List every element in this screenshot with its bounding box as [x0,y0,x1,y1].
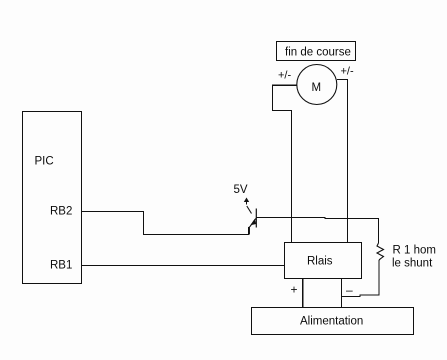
wire 5V to transistor base [247,206,252,214]
wire RB2 to transistor emitter [82,212,249,235]
resistor R1 shunt [377,243,384,261]
svg-text:Rlais: Rlais [307,256,333,268]
wire RB1 to relay [82,265,284,267]
svg-text:fin de course: fin de course [285,47,351,59]
svg-text:RB2: RB2 [50,206,72,218]
svg-text:+/-: +/- [341,66,354,78]
svg-text:RB1: RB1 [50,260,72,272]
block PIC [23,112,82,284]
svg-text:+/-: +/- [278,70,291,82]
svg-text:+: + [291,283,298,297]
svg-text:5V: 5V [234,184,248,196]
relay Rlais [285,243,362,279]
svg-text:le shunt: le shunt [392,258,433,270]
motor M1 [297,65,337,105]
svg-text:Alimentation: Alimentation [300,316,363,328]
wire transistor collector to shunt resistor [256,218,378,244]
wire motor right to relay [337,80,348,243]
svg-text:PIC: PIC [35,156,54,168]
wire shunt bottom return [341,260,379,297]
box fin de course [277,42,356,61]
arrow 5V [244,198,249,205]
svg-text:–: – [346,283,353,297]
svg-text:R 1 hom: R 1 hom [393,245,436,257]
wire relay to supply minus [340,279,342,307]
wire relay to supply plus [302,279,304,307]
svg-text:M: M [312,82,322,94]
transistor Q1 [249,209,256,235]
wire motor left to relay [273,85,298,242]
supply Alimentation [252,308,414,335]
